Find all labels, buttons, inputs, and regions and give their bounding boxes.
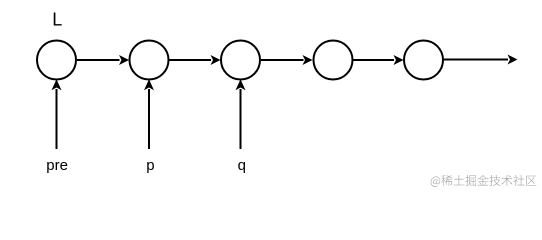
svg-text:pre: pre: [46, 157, 68, 174]
svg-text:q: q: [238, 157, 246, 174]
svg-text:L: L: [52, 10, 62, 30]
svg-text:p: p: [146, 157, 154, 174]
